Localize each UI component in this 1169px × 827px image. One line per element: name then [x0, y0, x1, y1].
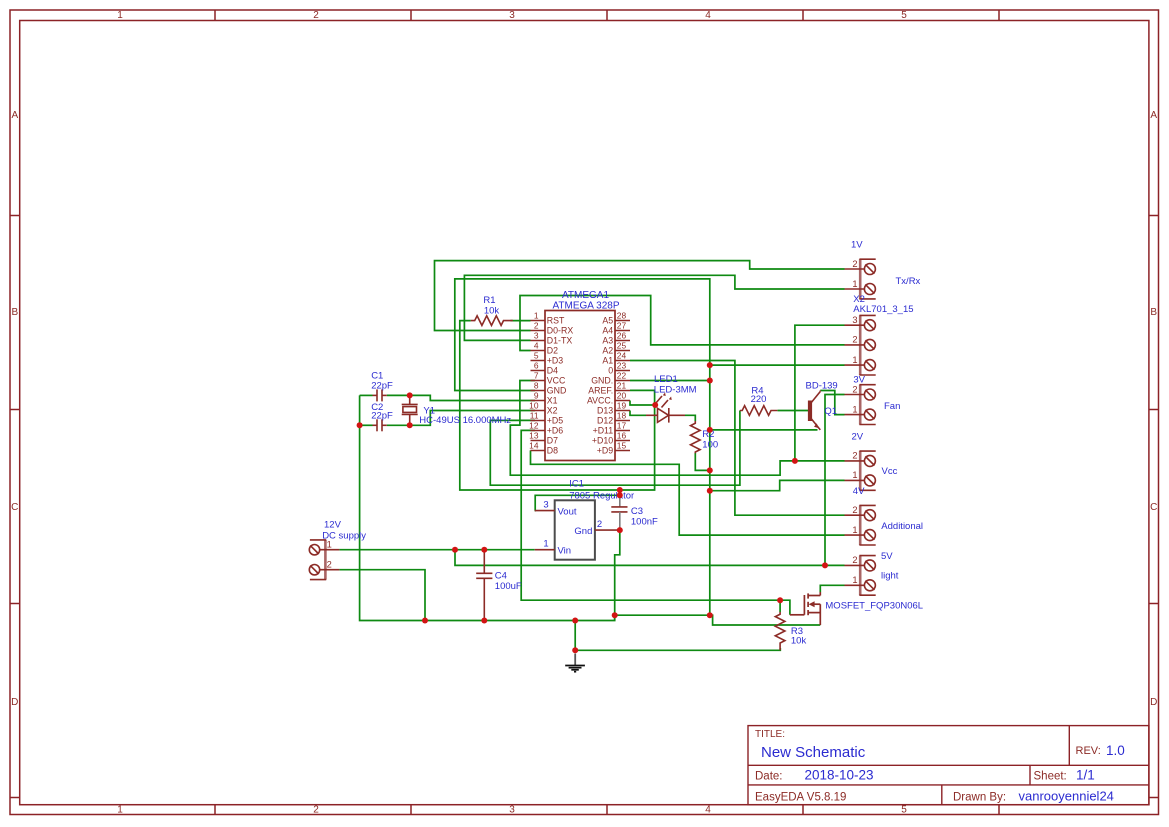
svg-text:Drawn By:: Drawn By:	[953, 792, 1006, 804]
svg-text:C4: C4	[495, 571, 507, 582]
svg-text:2: 2	[597, 519, 602, 530]
junction crystal top node	[407, 392, 413, 398]
svg-text:7805 Regulator: 7805 Regulator	[569, 491, 634, 502]
junction GND at Vcc pin 1 branch	[707, 488, 713, 494]
svg-text:5: 5	[901, 805, 907, 816]
resistor R3	[775, 612, 785, 650]
wire R4 right to Q1 base	[778, 410, 809, 412]
wire Vout to C3 top	[535, 495, 620, 510]
svg-text:D: D	[11, 697, 18, 708]
svg-text:TITLE:: TITLE:	[755, 729, 785, 740]
svg-text:27: 27	[617, 321, 627, 331]
svg-text:X2: X2	[547, 406, 558, 416]
svg-text:D12: D12	[597, 416, 613, 426]
svg-text:GND.: GND.	[591, 376, 613, 386]
svg-text:2: 2	[327, 560, 332, 570]
svg-text:+D10: +D10	[592, 436, 613, 446]
pin 7 VCC	[531, 371, 567, 386]
pin 17 +D11	[593, 421, 630, 436]
crystal Y1	[402, 395, 418, 425]
junction DC pin2 at rail	[422, 618, 428, 624]
svg-text:B: B	[11, 307, 18, 318]
wire crystal bottom to X2 pin10	[410, 411, 535, 426]
svg-text:1: 1	[852, 279, 857, 289]
svg-text:2: 2	[852, 384, 857, 394]
svg-text:3: 3	[534, 331, 539, 341]
wire light pin 1 to MOSFET drain	[820, 585, 844, 592]
pin 5 +D3	[531, 351, 564, 366]
wire D13 pin19 to LED anode	[630, 411, 646, 416]
svg-text:A5: A5	[602, 316, 613, 326]
connector X1 Tx/Rx	[845, 259, 876, 299]
svg-text:MOSFET_FQP30N06L: MOSFET_FQP30N06L	[825, 601, 923, 612]
svg-text:1: 1	[852, 525, 857, 535]
wire 12V rail to light pin 2	[455, 550, 845, 566]
wire DC supply pin 1 to Vin	[339, 549, 534, 551]
capacitor C4	[476, 550, 492, 621]
svg-text:ATMEGA1: ATMEGA1	[562, 290, 609, 301]
svg-text:New Schematic: New Schematic	[761, 744, 866, 761]
svg-text:+D5: +D5	[547, 416, 563, 426]
svg-text:AVCC.: AVCC.	[587, 396, 613, 406]
svg-text:Gnd: Gnd	[574, 526, 592, 537]
svg-text:4V: 4V	[853, 486, 865, 497]
svg-text:24: 24	[617, 351, 627, 361]
svg-text:2: 2	[852, 259, 857, 269]
svg-text:Fan: Fan	[884, 401, 900, 412]
svg-text:3: 3	[543, 500, 548, 511]
pin 23 0	[608, 361, 630, 376]
svg-text:3: 3	[509, 805, 515, 816]
svg-text:1: 1	[534, 311, 539, 321]
svg-text:2: 2	[534, 321, 539, 331]
junction rail2 at ground	[572, 647, 578, 653]
svg-text:Vcc: Vcc	[882, 466, 898, 477]
junction X2 pin3 Vcc pin2 node	[792, 458, 798, 464]
svg-text:Tx/Rx: Tx/Rx	[896, 276, 921, 287]
wire C1 right to crystal top node	[387, 394, 410, 396]
svg-text:6: 6	[534, 361, 539, 371]
svg-text:A: A	[11, 110, 18, 121]
svg-text:23: 23	[617, 361, 627, 371]
pin 14 D8	[529, 441, 558, 456]
IC ATMEGA1 ATMEGA 328P body	[545, 311, 615, 461]
svg-text:D: D	[1150, 697, 1157, 708]
svg-text:+D6: +D6	[547, 426, 563, 436]
svg-text:DC supply: DC supply	[322, 530, 366, 541]
svg-text:3: 3	[852, 315, 857, 325]
wire R1 right to RST pin1	[510, 320, 530, 322]
svg-text:+D3: +D3	[547, 356, 563, 366]
transistor Q1 BD-139	[810, 391, 820, 430]
junction crystal bottom node	[407, 422, 413, 428]
wire R1 left to 5V net and AREF	[460, 321, 655, 490]
svg-text:2V: 2V	[852, 431, 864, 442]
junction C3 bottom Gnd pin	[617, 527, 623, 533]
wire VCC pin7 to Vcc connector pin 2	[510, 381, 844, 476]
pin 16 +D10	[592, 431, 630, 446]
svg-text:Date:: Date:	[755, 771, 783, 783]
svg-text:28: 28	[617, 311, 627, 321]
svg-text:3V: 3V	[853, 374, 865, 385]
connector X2 AKL701_3_15	[845, 315, 876, 375]
pin 22 GND.	[591, 371, 630, 386]
wire ground rail 2 to R3 bottom	[575, 621, 780, 651]
wire +D6 pin12 to MOSFET gate	[521, 430, 790, 614]
svg-text:9: 9	[534, 391, 539, 401]
pin 28 A5	[602, 311, 630, 326]
wire C2 right to crystal bottom node	[387, 424, 410, 426]
svg-text:EasyEDA V5.8.19: EasyEDA V5.8.19	[755, 792, 846, 804]
svg-text:22: 22	[617, 371, 627, 381]
wire Vcc pin 1 to GND vertical	[710, 480, 845, 490]
svg-text:Vin: Vin	[558, 546, 572, 557]
pin 15 +D9	[597, 441, 630, 456]
junction C2 left node	[357, 422, 363, 428]
svg-text:2: 2	[852, 451, 857, 461]
svg-text:12: 12	[529, 421, 539, 431]
svg-text:ATMEGA 328P: ATMEGA 328P	[552, 301, 619, 312]
svg-text:X1: X1	[547, 396, 558, 406]
wire crystal top to X1 pin9	[410, 395, 535, 400]
MOSFET Q2 FQP30N06L	[790, 592, 820, 625]
svg-text:D0-RX: D0-RX	[547, 326, 574, 336]
svg-text:C: C	[11, 502, 18, 513]
pin 19 D13	[597, 401, 630, 416]
connector DC supply 12V	[309, 540, 339, 580]
junction gate R3 node	[777, 597, 783, 603]
svg-text:1: 1	[117, 805, 123, 816]
svg-text:26: 26	[617, 331, 627, 341]
svg-text:100uF: 100uF	[495, 581, 522, 592]
svg-text:10: 10	[529, 401, 539, 411]
svg-text:Vout: Vout	[558, 506, 577, 517]
connector light	[845, 555, 876, 595]
svg-text:D13: D13	[597, 406, 613, 416]
svg-text:1: 1	[852, 404, 857, 414]
pin 25 A2	[602, 341, 630, 356]
junction Vout line at C3	[617, 492, 623, 498]
svg-text:10k: 10k	[484, 306, 500, 317]
svg-text:2: 2	[852, 505, 857, 515]
svg-text:5V: 5V	[881, 551, 893, 562]
wire Q1 emitter to GND vertical	[710, 429, 818, 431]
svg-text:10k: 10k	[791, 636, 807, 647]
svg-text:Additional: Additional	[881, 521, 923, 532]
svg-text:A4: A4	[602, 326, 613, 336]
wire AVCC jog to AREF node	[630, 401, 655, 406]
svg-text:14: 14	[529, 441, 539, 451]
svg-text:light: light	[881, 571, 899, 582]
junction GND at X2 pin 1	[707, 362, 713, 368]
wire D1-TX pin3 to Tx/Rx pin 1	[464, 275, 844, 340]
wire D8 pin14 to Additional pin 1	[531, 450, 845, 535]
svg-text:1V: 1V	[851, 240, 863, 251]
junction C4 top node	[481, 547, 487, 553]
svg-text:22pF: 22pF	[371, 411, 393, 422]
svg-text:4: 4	[534, 341, 539, 351]
LED LED1	[646, 396, 685, 423]
capacitor C2	[373, 419, 387, 431]
pin 9 X1	[531, 391, 558, 406]
pin 3 D1-TX	[531, 331, 573, 346]
pin 13 D7	[529, 431, 558, 446]
IC1 pin 1 Vin stub	[535, 549, 555, 551]
svg-text:A3: A3	[602, 336, 613, 346]
svg-text:100: 100	[702, 440, 718, 451]
svg-text:13: 13	[529, 431, 539, 441]
ground symbol	[574, 654, 576, 666]
svg-text:1: 1	[852, 575, 857, 585]
svg-text:R1: R1	[483, 295, 495, 306]
svg-text:1: 1	[852, 470, 857, 480]
junction C3 branch at rail	[612, 612, 618, 618]
wire Fan pin 2 to 12V vertical	[825, 395, 845, 566]
svg-text:2: 2	[313, 805, 319, 816]
svg-text:16: 16	[617, 431, 627, 441]
svg-text:2018-10-23: 2018-10-23	[805, 768, 874, 783]
svg-text:2: 2	[313, 10, 319, 21]
svg-text:VCC: VCC	[547, 376, 566, 386]
svg-text:100nF: 100nF	[631, 516, 658, 527]
wire DC supply pin 2 to ground rail	[339, 570, 425, 621]
svg-text:D2: D2	[547, 346, 558, 356]
connector Fan	[845, 384, 876, 424]
svg-text:B: B	[1150, 307, 1157, 318]
svg-text:D7: D7	[547, 436, 558, 446]
svg-text:IC1: IC1	[569, 478, 584, 489]
svg-text:5: 5	[901, 10, 907, 21]
svg-text:AKL701_3_15: AKL701_3_15	[853, 304, 913, 315]
svg-text:RST: RST	[547, 316, 565, 326]
svg-text:4: 4	[705, 805, 711, 816]
svg-text:1: 1	[543, 539, 548, 550]
pin 26 A3	[602, 331, 630, 346]
resistor R2	[691, 421, 701, 453]
pin 1 RST	[531, 311, 566, 326]
pin 6 D4	[531, 361, 559, 376]
wire GND pin8 loop to GND vertical	[455, 279, 710, 615]
svg-text:4: 4	[705, 10, 711, 21]
pin 24 A1	[602, 351, 630, 366]
svg-text:19: 19	[617, 401, 627, 411]
svg-text:C: C	[1150, 502, 1157, 513]
wire R3 top lead	[779, 600, 781, 612]
svg-text:LED-3MM: LED-3MM	[654, 385, 697, 396]
svg-text:AREF.: AREF.	[588, 386, 613, 396]
svg-text:1: 1	[117, 10, 123, 21]
regulator IC1 7805 body	[555, 500, 595, 559]
svg-text:17: 17	[617, 421, 627, 431]
junction ground symbol node	[572, 618, 578, 624]
svg-text:2: 2	[852, 555, 857, 565]
wire C1 left	[360, 394, 373, 396]
svg-text:A1: A1	[602, 356, 613, 366]
pin 18 D12	[597, 411, 630, 426]
connector Vcc	[845, 451, 876, 491]
svg-text:7: 7	[534, 371, 539, 381]
junction AREF AVCC node	[652, 402, 658, 408]
svg-text:vanrooyenniel24: vanrooyenniel24	[1019, 789, 1114, 804]
svg-text:GND: GND	[547, 386, 567, 396]
resistor R4	[740, 406, 778, 416]
junction GND at pin 22	[707, 378, 713, 384]
wire D2 pin4 to X2 pin 2	[520, 296, 845, 351]
wire D0-RX pin2 to Tx/Rx pin 2	[435, 261, 845, 331]
pin 8 GND	[531, 381, 567, 396]
svg-text:3: 3	[509, 10, 515, 21]
svg-text:1: 1	[852, 355, 857, 365]
svg-text:22pF: 22pF	[371, 381, 393, 392]
wire C3 bottom to ground rail	[615, 530, 620, 620]
svg-text:25: 25	[617, 341, 627, 351]
svg-text:18: 18	[617, 411, 627, 421]
svg-text:LED1: LED1	[654, 374, 678, 385]
svg-text:+D9: +D9	[597, 446, 613, 456]
junction GND at R2 bottom	[707, 467, 713, 473]
pin 4 D2	[531, 341, 559, 356]
svg-text:REV:: REV:	[1076, 745, 1101, 757]
junction C4 bottom at rail	[481, 618, 487, 624]
wire X2 pin 1 to GND vertical	[710, 364, 845, 366]
svg-text:21: 21	[617, 381, 627, 391]
title block	[748, 726, 1149, 805]
junction GND at Q1 emitter	[707, 427, 713, 433]
connector Additional	[845, 505, 876, 545]
wire +D5 pin11 to R4	[490, 411, 740, 486]
pin 2 D0-RX	[531, 321, 574, 336]
resistor R1	[471, 316, 513, 326]
wire LED cathode to R2	[685, 415, 695, 421]
svg-text:220: 220	[751, 394, 767, 405]
wire ground rail	[360, 395, 821, 625]
svg-text:BD-139: BD-139	[806, 381, 838, 392]
pin 12 +D6	[529, 421, 563, 436]
wire GND pin22 to GND vertical	[630, 380, 710, 382]
svg-text:+D11: +D11	[593, 426, 614, 436]
wire C2 left	[360, 424, 373, 426]
svg-text:8: 8	[534, 381, 539, 391]
pin 11 +D5	[530, 411, 563, 426]
svg-text:15: 15	[617, 441, 627, 451]
wire R2 bottom to GND vertical	[695, 453, 710, 470]
junction 5V line at C3 top	[617, 487, 623, 493]
svg-text:A: A	[1150, 110, 1157, 121]
svg-text:20: 20	[617, 391, 627, 401]
svg-text:D1-TX: D1-TX	[547, 336, 573, 346]
svg-text:12V: 12V	[324, 520, 342, 531]
junction 12V at Fan branch	[822, 562, 828, 568]
IC1 pin 2 Gnd stub	[595, 529, 619, 531]
IC1 pin 3 Vout stub	[535, 510, 555, 512]
svg-text:5: 5	[534, 351, 539, 361]
svg-text:A2: A2	[602, 346, 613, 356]
wire A1 pin24 to Additional pin 2	[630, 361, 845, 516]
svg-text:1.0: 1.0	[1106, 743, 1125, 758]
svg-text:D4: D4	[547, 366, 558, 376]
wire X2 pin 3 down to Vcc pin2 node	[795, 325, 845, 461]
pin 21 AREF.	[588, 381, 630, 396]
svg-text:D8: D8	[547, 446, 558, 456]
svg-text:Sheet:: Sheet:	[1034, 771, 1067, 783]
wire Q1 collector to Fan pin 1	[820, 391, 844, 415]
svg-text:HC-49US 16.000MHz: HC-49US 16.000MHz	[419, 415, 511, 426]
junction GND vertical at rail	[707, 612, 713, 618]
svg-text:2: 2	[852, 335, 857, 345]
svg-text:1/1: 1/1	[1076, 768, 1095, 783]
svg-text:11: 11	[530, 411, 539, 421]
pin 27 A4	[602, 321, 630, 336]
svg-text:0: 0	[608, 366, 613, 376]
junction Vin node A	[452, 547, 458, 553]
svg-text:C3: C3	[631, 506, 643, 517]
capacitor C1	[373, 389, 387, 401]
pin 10 X2	[529, 401, 557, 416]
capacitor C3	[611, 490, 627, 530]
pin 20 AVCC.	[587, 391, 630, 406]
svg-text:Q1: Q1	[824, 406, 837, 417]
